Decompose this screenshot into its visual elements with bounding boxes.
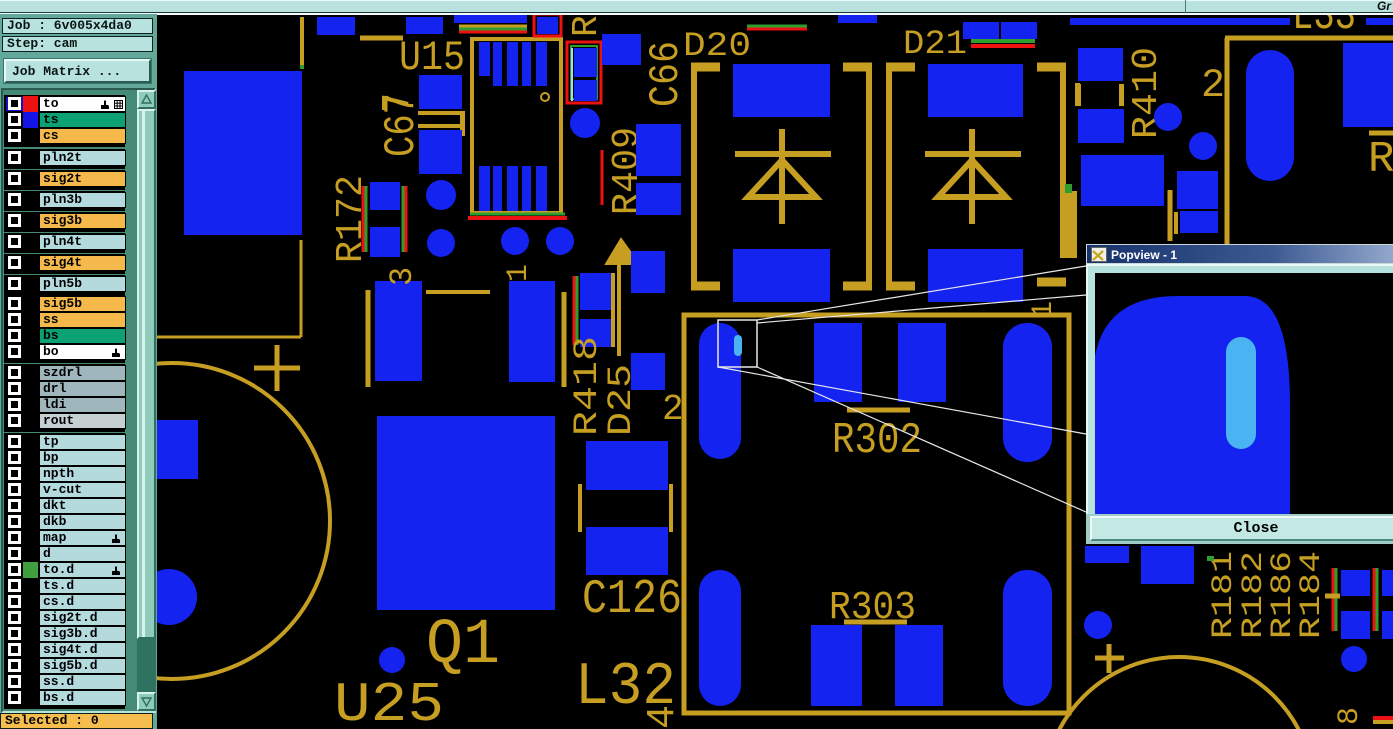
pad (1081, 155, 1164, 206)
layer row ts (5, 112, 122, 128)
layer row ss (5, 312, 122, 328)
layer row npth (5, 466, 122, 482)
wire highlight red (747, 28, 807, 31)
wire highlight red (573, 276, 576, 345)
wire (300, 17, 304, 68)
polarity mark + (1095, 656, 1124, 661)
svg-text:4: 4 (641, 705, 686, 729)
diode D25 symbol (606, 239, 639, 264)
pin 1 dot (541, 93, 549, 101)
layer row sig5b (5, 296, 122, 312)
layer group (4, 433, 125, 709)
pad (574, 80, 597, 101)
pad (602, 34, 641, 65)
pad (184, 71, 302, 235)
via (1154, 103, 1182, 131)
resistor pack highlight red (1332, 568, 1335, 631)
via (1084, 611, 1112, 639)
component highlight red (567, 42, 601, 103)
polarity mark + (254, 366, 300, 371)
svg-text:3: 3 (384, 267, 421, 286)
wire (152, 336, 301, 339)
via (1189, 132, 1217, 160)
svg-text:R: R (1368, 135, 1393, 185)
component highlight green (533, 12, 562, 15)
layer row bo (5, 344, 122, 360)
capacitor C67 mark (418, 124, 464, 128)
ic U15 highlight red (468, 216, 567, 220)
node green tip (300, 65, 304, 69)
pad (537, 17, 558, 34)
pad oval (1003, 323, 1052, 462)
pin (507, 166, 518, 211)
pad (811, 625, 862, 706)
resistor mark (1076, 84, 1081, 106)
layer row cs (5, 128, 122, 144)
capacitor C126 mark (669, 484, 673, 532)
svg-text:U15: U15 (399, 34, 465, 82)
layer row bp (5, 450, 122, 466)
wire (384, 98, 408, 110)
pin (507, 42, 518, 86)
pad (928, 64, 1023, 117)
svg-text:2: 2 (662, 389, 684, 430)
resistor R172 highlight green (402, 186, 405, 252)
via (427, 229, 455, 257)
wire (1325, 594, 1340, 599)
layer row to.d (5, 562, 122, 578)
layer row sig4t (5, 255, 122, 271)
popview icon (1091, 247, 1107, 262)
pad (1078, 109, 1124, 143)
component highlight green (571, 46, 597, 99)
layer group (4, 191, 125, 211)
pad (419, 130, 462, 174)
transistor Q1 pad (377, 416, 555, 610)
diode D20 outline right (866, 63, 872, 290)
component highlight red (534, 14, 561, 36)
layer row sig3b (5, 213, 122, 229)
layer row sig2t (5, 171, 122, 187)
pad (419, 75, 462, 109)
silkscreen line (847, 408, 910, 413)
via (546, 227, 574, 255)
layer row dkb (5, 514, 122, 530)
layer row to (5, 96, 122, 112)
capacitor C67 mark (418, 111, 464, 115)
popview close button (1086, 514, 1393, 544)
wire (1373, 720, 1393, 724)
pad (580, 319, 611, 347)
wire (300, 240, 303, 337)
diode D21 outline left (886, 63, 892, 290)
pad (1341, 570, 1370, 596)
capacitor C126 mark (578, 484, 582, 532)
via (1341, 646, 1367, 672)
svg-text:1: 1 (502, 264, 536, 282)
svg-text:Q1: Q1 (426, 610, 500, 682)
ic outline R302 box (684, 315, 1069, 713)
svg-text:R302: R302 (832, 416, 922, 466)
layer group (4, 233, 125, 253)
via (426, 180, 456, 210)
pad (574, 48, 597, 77)
wire highlight red (971, 44, 1035, 48)
layer row ts.d (5, 578, 122, 594)
svg-text:D21: D21 (903, 26, 967, 64)
node green (1207, 556, 1214, 561)
wire (1168, 190, 1173, 241)
layer group (4, 275, 125, 295)
layer row pln2t (5, 150, 122, 166)
pad (370, 227, 400, 257)
resistor pack highlight red (1373, 568, 1376, 631)
pad (895, 625, 943, 706)
svg-text:D25: D25 (603, 364, 641, 436)
via (379, 647, 405, 673)
wire (611, 273, 615, 347)
silkscreen line (844, 620, 907, 625)
layer row cs.d (5, 594, 122, 610)
pad (141, 569, 197, 625)
selected count box (0, 713, 153, 729)
svg-text:R181: R181 (1207, 551, 1241, 639)
ic outline L33 (1225, 36, 1393, 41)
pad (631, 353, 665, 390)
wire highlight red (601, 150, 604, 205)
silkscreen line (1369, 131, 1393, 136)
pad (636, 124, 681, 176)
wire highlight green (459, 28, 527, 31)
component outline (366, 290, 371, 387)
pad (586, 527, 668, 575)
pad (963, 22, 999, 39)
layer group (4, 149, 125, 169)
svg-text:1: 1 (1027, 301, 1061, 319)
resistor pack highlight green (1376, 568, 1379, 631)
layer row drl (5, 381, 122, 397)
resistor R172 highlight red (405, 186, 408, 252)
layer row pln5b (5, 276, 122, 292)
layer group (4, 95, 125, 147)
pin (522, 166, 531, 211)
svg-text:R184: R184 (1295, 551, 1329, 639)
wire highlight green (971, 39, 1035, 43)
pad (838, 14, 877, 23)
zoomed highlight sliver (1226, 337, 1256, 449)
resistor R172 highlight green (365, 186, 368, 252)
pad (509, 281, 555, 382)
layer row bs (5, 328, 122, 344)
layer row sig5b.d (5, 658, 122, 674)
resistor mark (1119, 84, 1124, 106)
pin (536, 166, 547, 211)
diode D20 outline left (691, 63, 697, 290)
pad (317, 17, 355, 35)
layer row pln3b (5, 192, 122, 208)
pad (1177, 171, 1218, 209)
layer list area (1, 88, 156, 713)
job matrix button (4, 59, 151, 83)
highlight sliver (734, 335, 742, 356)
wire (617, 264, 621, 356)
diode D20 symbol (779, 129, 785, 224)
pad (814, 323, 862, 402)
menu bar (0, 0, 1393, 13)
pad (375, 281, 422, 381)
svg-text:D20: D20 (683, 28, 751, 66)
wire (459, 25, 527, 28)
wire highlight red (1373, 716, 1393, 720)
layer row sig4t.d (5, 642, 122, 658)
resistor R172 highlight red (362, 186, 365, 252)
wire (360, 36, 403, 41)
layer row bs.d (5, 690, 122, 706)
via (570, 108, 600, 138)
pad (733, 249, 830, 302)
svg-text:2: 2 (1201, 64, 1225, 109)
svg-text:R: R (566, 15, 607, 37)
pad (1085, 546, 1129, 563)
svg-text:R172: R172 (330, 175, 373, 263)
resistor pack highlight green (1335, 568, 1338, 631)
wire (1075, 83, 1080, 106)
pad (1366, 18, 1393, 25)
diode D21 outline right (1060, 63, 1066, 258)
pad (898, 323, 946, 402)
pad (1180, 211, 1218, 233)
component outline (562, 292, 567, 387)
step name box (2, 36, 153, 52)
pad (1001, 22, 1037, 39)
svg-text:R418: R418 (569, 336, 607, 436)
wire highlight green (576, 276, 579, 345)
pad oval (699, 323, 741, 459)
pad (1141, 546, 1194, 584)
diode D21 outline right thick (1066, 191, 1077, 258)
pad (1078, 48, 1123, 81)
callout line (757, 266, 1086, 320)
svg-text:C67: C67 (377, 93, 427, 157)
pin (479, 42, 490, 76)
pad oval (1246, 50, 1294, 181)
layer row d (5, 546, 122, 562)
pin (522, 42, 531, 86)
layer row szdrl (5, 365, 122, 381)
pad (636, 183, 681, 215)
layer row ldi (5, 397, 122, 413)
layer row v-cut (5, 482, 122, 498)
component outline (426, 290, 490, 294)
svg-text:8: 8 (1333, 707, 1367, 725)
pad (631, 251, 665, 293)
left control panel (0, 14, 157, 729)
pad (1382, 570, 1393, 596)
pad (1382, 611, 1393, 639)
callout line (718, 367, 1086, 434)
layer row sig2t.d (5, 610, 122, 626)
capacitor outline circle (14, 363, 330, 679)
ic U15 outline (472, 39, 561, 213)
layer group (4, 295, 125, 363)
pad (370, 182, 400, 210)
pad (155, 420, 198, 479)
pin (493, 166, 502, 211)
ic U15 highlight green (470, 213, 565, 216)
layer row sig3b.d (5, 626, 122, 642)
wire highlight red (459, 31, 527, 34)
layer group (4, 364, 125, 432)
via (501, 227, 529, 255)
callout line (757, 367, 1086, 512)
zoom source box (718, 320, 757, 367)
pad (406, 17, 443, 34)
pad (733, 64, 830, 117)
layer group (4, 170, 125, 190)
diode D21 symbol (969, 129, 975, 224)
wire highlight green (747, 25, 807, 28)
svg-text:U25: U25 (334, 673, 444, 729)
resistor mark (1174, 212, 1178, 234)
pad (454, 14, 527, 23)
popview body (1086, 264, 1393, 514)
layer group (4, 254, 125, 274)
layer row tp (5, 434, 122, 450)
pad (928, 249, 1023, 302)
capacitor outline circle (1044, 657, 1314, 729)
pin (479, 166, 490, 211)
node green (1065, 184, 1072, 193)
popview title bar (1086, 244, 1393, 264)
pad (1343, 43, 1393, 127)
zoomed pad (1095, 273, 1393, 514)
pad oval (1003, 570, 1052, 706)
pad (1341, 611, 1370, 639)
layer row rout (5, 413, 122, 429)
svg-text:C126: C126 (582, 573, 682, 627)
scrollbar (137, 90, 156, 711)
pad (586, 441, 668, 490)
pad (1070, 18, 1290, 25)
popview window (1086, 244, 1393, 544)
wire (460, 111, 465, 136)
pin (493, 42, 502, 86)
layer group (4, 212, 125, 232)
pad (580, 273, 611, 310)
layer row dkt (5, 498, 122, 514)
layer row pln4t (5, 234, 122, 250)
pin (536, 42, 547, 86)
layer row map (5, 530, 122, 546)
callout line (757, 295, 1086, 323)
wire cyan (571, 48, 573, 101)
pad oval (699, 570, 741, 706)
layer row ss.d (5, 674, 122, 690)
job name box (2, 18, 153, 34)
